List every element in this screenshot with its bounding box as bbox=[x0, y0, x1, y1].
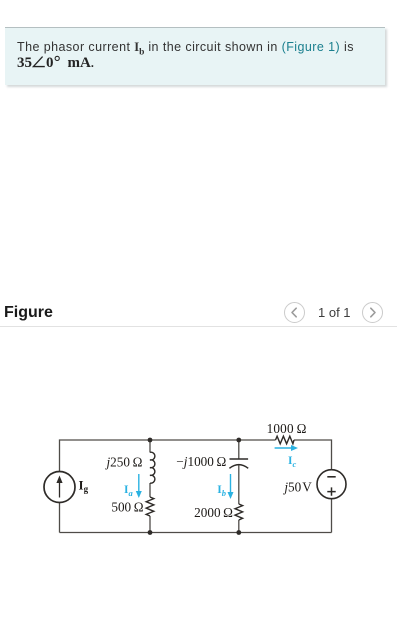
pager bbox=[284, 302, 397, 323]
resistor 1000 ohm (horizontal) bbox=[276, 436, 295, 444]
svg-text:500 Ω: 500 Ω bbox=[111, 499, 143, 514]
svg-text:Ib: Ib bbox=[217, 484, 226, 498]
wire branch 500 ohm lead bbox=[149, 516, 151, 533]
resistor 500 ohm bbox=[146, 497, 154, 516]
svg-text:1000 Ω: 1000 Ω bbox=[267, 421, 307, 436]
current arrow Ia bbox=[138, 474, 140, 493]
separator line bbox=[0, 326, 397, 327]
resistor 2000 ohm bbox=[235, 504, 243, 520]
node dot top-left junction bbox=[148, 438, 153, 443]
svg-text:Ig: Ig bbox=[79, 477, 89, 494]
problem intro panel bbox=[5, 27, 385, 85]
svg-text:−j1000 Ω: −j1000 Ω bbox=[176, 454, 226, 469]
wire branch 2000 ohm lead bbox=[238, 520, 240, 533]
capacitor -j1000 curved plate bbox=[229, 465, 248, 469]
node dot bottom-left junction bbox=[148, 530, 153, 535]
wire branch capacitor leads bbox=[238, 440, 240, 504]
inductor j250 bbox=[150, 452, 155, 483]
current arrow Ic bbox=[275, 447, 293, 449]
node dot top-mid junction bbox=[236, 438, 241, 443]
voltage source j50V bbox=[317, 470, 346, 499]
wire branch inductor leads bbox=[149, 440, 151, 497]
current arrow Ib bbox=[230, 474, 232, 494]
svg-text:Ic: Ic bbox=[288, 455, 296, 469]
capacitor -j1000 top plate bbox=[230, 458, 249, 460]
svg-text:Ia: Ia bbox=[124, 484, 133, 498]
svg-text:j50 V: j50 V bbox=[282, 479, 312, 494]
wire right rail below source bbox=[331, 499, 333, 533]
wire bottom rail bbox=[60, 503, 332, 533]
Figure heading bbox=[4, 304, 53, 322]
node dot bottom-mid junction bbox=[236, 530, 241, 535]
wire top-left segment bbox=[60, 440, 276, 472]
wire top-right to right rail bbox=[294, 440, 332, 470]
svg-text:2000 Ω: 2000 Ω bbox=[194, 505, 233, 520]
svg-text:j250 Ω: j250 Ω bbox=[104, 454, 142, 469]
current source Ig bbox=[44, 472, 75, 503]
